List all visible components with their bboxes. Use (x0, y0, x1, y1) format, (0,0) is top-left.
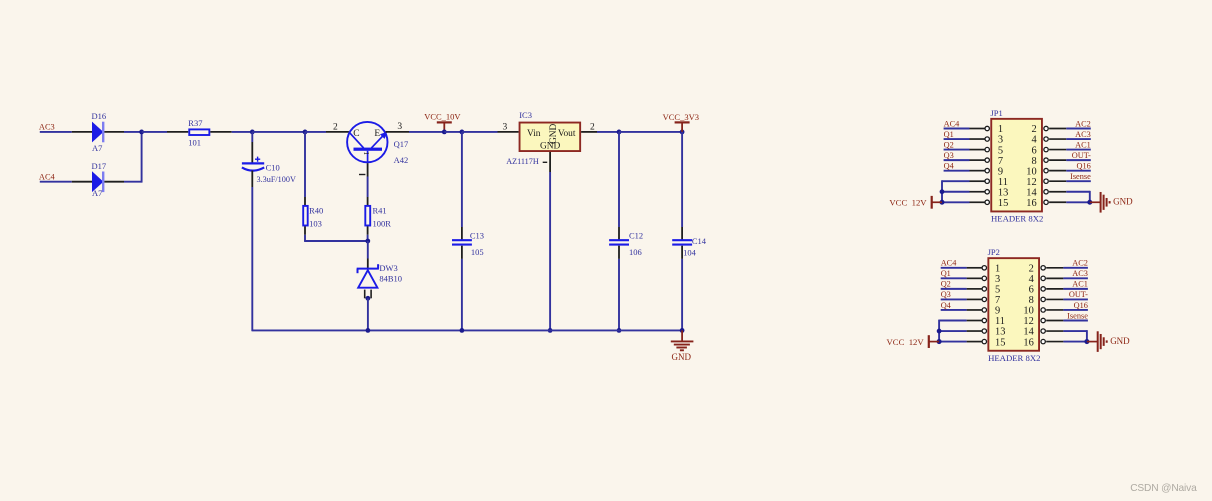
JP2 pin 3 stub (967, 277, 982, 279)
svg-text:AC2: AC2 (1075, 119, 1091, 128)
svg-text:8: 8 (1031, 156, 1036, 167)
wire JP2 pin 14 to gnd bus (1063, 330, 1087, 332)
wire node to DW3 cathode (367, 241, 369, 259)
wire JP1 pin 16 to gnd bus (1066, 201, 1090, 203)
svg-text:Isense: Isense (1067, 311, 1088, 320)
wire net OUT- at JP1 (1066, 159, 1091, 161)
wire R37 to C10 node (232, 131, 253, 133)
svg-text:6: 6 (1031, 145, 1036, 156)
svg-text:Q16: Q16 (1074, 301, 1088, 310)
wire node down to C12 (618, 132, 620, 227)
wire VCC_3V3 node down to C14 (681, 132, 683, 227)
svg-text:Q17: Q17 (394, 139, 409, 149)
svg-text:AC4: AC4 (944, 119, 961, 128)
JP2 pin 4 circle (1041, 276, 1045, 280)
svg-text:Q4: Q4 (944, 161, 955, 170)
wire C10 to bottom rail (251, 187, 253, 331)
svg-text:Q1: Q1 (944, 130, 954, 139)
ground symbol at JP2 (1087, 341, 1098, 343)
svg-text:3: 3 (995, 274, 1000, 285)
svg-text:Q3: Q3 (944, 151, 954, 160)
svg-text:3: 3 (998, 135, 1003, 146)
JP1 pin 4 stub (1049, 138, 1066, 140)
svg-text:2: 2 (1031, 124, 1036, 135)
wire IC3 GND to bottom rail (549, 172, 551, 331)
svg-text:AC3: AC3 (1072, 269, 1088, 278)
wire net AC2 at JP1 (1066, 128, 1091, 130)
svg-text:AC4: AC4 (39, 172, 56, 181)
junction dot VCC_10V node (442, 130, 447, 135)
svg-text:2: 2 (333, 122, 338, 132)
svg-text:15: 15 (995, 337, 1005, 348)
wire JP2 pin 15 to bus (939, 341, 967, 343)
JP2 pin 3 circle (982, 276, 986, 280)
ground symbol at JP1 (1090, 201, 1101, 203)
svg-text:AC2: AC2 (1072, 259, 1088, 268)
wire net AC4 at JP2 (941, 267, 967, 269)
wire R40 to R41 bottom node (304, 235, 306, 241)
svg-text:JP1: JP1 (991, 108, 1003, 118)
svg-text:11: 11 (998, 177, 1008, 188)
capacitor C10 (251, 142, 253, 163)
svg-text:C: C (353, 129, 359, 139)
JP2 pin 12 circle (1041, 318, 1045, 322)
junction dot R40/R41/DW3 node (365, 239, 370, 244)
svg-text:1: 1 (998, 124, 1003, 135)
power symbol VCC 12V at JP1 (932, 201, 942, 203)
JP1 pin 6 stub (1049, 149, 1066, 151)
svg-text:14: 14 (1026, 187, 1037, 198)
wire R40 node to Q17 collector (305, 131, 326, 133)
svg-text:13: 13 (995, 327, 1005, 338)
JP1 pin 2 circle (1044, 126, 1048, 130)
svg-text:C10: C10 (266, 163, 280, 173)
JP2 pin 10 stub (1046, 309, 1063, 311)
wire Q17 emitter to VCC_10V node (409, 131, 444, 133)
svg-text:15: 15 (998, 198, 1008, 209)
svg-text:C14: C14 (692, 236, 707, 246)
JP2 pin 6 stub (1046, 288, 1063, 290)
svg-text:GND: GND (1110, 336, 1130, 346)
JP1 pin 8 circle (1044, 158, 1048, 162)
JP1 pin 5 circle (985, 147, 989, 151)
diode D16 (72, 131, 92, 133)
wire JP1 pin 13 to bus (942, 191, 970, 193)
JP1 pin 8 stub (1049, 159, 1066, 161)
svg-text:3: 3 (503, 123, 508, 133)
svg-text:VCC_3V3: VCC_3V3 (663, 112, 699, 122)
JP2 pin 13 stub (967, 330, 982, 332)
JP2 pin 7 stub (967, 298, 982, 300)
JP2 pin 9 circle (982, 308, 986, 312)
svg-text:Q16: Q16 (1077, 161, 1091, 170)
svg-text:12: 12 (1026, 177, 1036, 188)
JP1 VCC bus vertical (941, 180, 943, 202)
svg-text:HEADER 8X2: HEADER 8X2 (991, 214, 1043, 224)
JP2 pin 16 stub (1046, 341, 1063, 343)
JP1 pin 3 circle (985, 137, 989, 141)
svg-text:8: 8 (1029, 295, 1034, 306)
zener diode DW3 (367, 259, 369, 269)
JP2 pin 2 circle (1041, 266, 1045, 270)
svg-text:13: 13 (998, 187, 1008, 198)
junction dot AC3/D16 node (139, 130, 144, 135)
svg-text:14: 14 (1023, 327, 1034, 338)
JP2 pin 6 circle (1041, 287, 1045, 291)
JP1 pin 14 circle (1044, 190, 1048, 194)
wire VCC_10V node to C13 node (444, 131, 462, 133)
wire R41 to node (367, 235, 369, 241)
JP1 pin 7 stub (970, 159, 985, 161)
svg-text:VCC_10V: VCC_10V (424, 111, 461, 121)
JP1 pin 7 circle (985, 158, 989, 162)
svg-text:4: 4 (1031, 135, 1037, 146)
JP2 pin 12 stub (1046, 320, 1063, 322)
svg-text:AZ1117H: AZ1117H (506, 157, 539, 166)
svg-text:C13: C13 (470, 231, 484, 241)
junction dot JP2 pin 13 (937, 329, 942, 334)
wire JP2 pin 13 to bus (939, 330, 967, 332)
JP2 pin 2 stub (1046, 267, 1063, 269)
wire C13 to bottom rail (461, 259, 463, 331)
svg-text:D16: D16 (92, 111, 107, 121)
wire node down to C10 (251, 132, 253, 142)
svg-text:IC3: IC3 (519, 110, 532, 120)
JP2 pin 10 circle (1041, 308, 1045, 312)
svg-text:VCC 12V: VCC 12V (889, 198, 927, 208)
wire net Q3 at JP1 (944, 159, 970, 161)
capacitor C13 (461, 227, 463, 240)
svg-text:AC4: AC4 (941, 259, 958, 268)
JP2 pin 8 stub (1046, 298, 1063, 300)
svg-text:Q4: Q4 (941, 301, 952, 310)
svg-text:103: 103 (309, 218, 322, 228)
svg-text:5: 5 (998, 145, 1003, 156)
JP2 pin 15 circle (982, 339, 986, 343)
svg-text:Isense: Isense (1070, 172, 1091, 181)
Q17 emitter pin wire (386, 131, 409, 133)
svg-text:Q2: Q2 (941, 280, 951, 289)
svg-text:1: 1 (362, 151, 371, 155)
JP1 pin 9 circle (985, 168, 989, 172)
svg-text:9: 9 (998, 166, 1003, 177)
svg-text:10: 10 (1026, 166, 1036, 177)
JP1 pin 10 circle (1044, 168, 1048, 172)
JP2 pin 5 stub (967, 288, 982, 290)
capacitor C14 (681, 227, 683, 240)
svg-text:11: 11 (995, 316, 1005, 327)
JP1 pin 9 stub (970, 170, 985, 172)
svg-text:84B10: 84B10 (379, 274, 402, 284)
wire net Isense at JP2 (1063, 320, 1088, 322)
JP1 pin 13 stub (970, 191, 985, 193)
regulator IC3 (498, 131, 519, 133)
svg-text:AC1: AC1 (1072, 280, 1088, 289)
JP1 pin 1 circle (985, 126, 989, 130)
svg-text:6: 6 (1029, 285, 1034, 296)
wire IC3 Vout to C12 node (597, 131, 619, 133)
JP2 pin 1 circle (982, 266, 986, 270)
JP2 pin 14 stub (1046, 330, 1063, 332)
resistor R40 (304, 197, 306, 205)
svg-text:3.3uF/100V: 3.3uF/100V (257, 175, 296, 184)
wire net AC1 at JP2 (1063, 288, 1088, 290)
svg-text:AC1: AC1 (1075, 140, 1091, 149)
svg-text:Vout: Vout (558, 129, 576, 139)
wire AC4 to D17 anode (40, 181, 72, 183)
wire C12 node to VCC_3V3 corner (619, 131, 682, 133)
svg-text:VCC 12V: VCC 12V (887, 337, 925, 347)
header JP1 body (991, 119, 1042, 212)
JP2 pin 4 stub (1046, 277, 1063, 279)
junction dot GND corner (680, 328, 685, 333)
JP2 pin 5 circle (982, 287, 986, 291)
JP2 pin 15 stub (967, 341, 982, 343)
ground symbol GND (681, 330, 683, 341)
svg-text:7: 7 (998, 156, 1003, 167)
svg-text:5: 5 (995, 285, 1000, 296)
svg-text:R37: R37 (188, 118, 202, 128)
JP1 pin 2 stub (1049, 128, 1066, 130)
svg-text:104: 104 (683, 248, 697, 258)
svg-text:4: 4 (1029, 274, 1035, 285)
resistor R41 (367, 197, 369, 205)
svg-text:GND: GND (540, 142, 561, 152)
wire JP1 pin 14 to gnd bus (1066, 191, 1090, 193)
wire DW3 anode to bottom rail (367, 298, 369, 331)
JP2 pin 13 circle (982, 329, 986, 333)
junction dot JP1 pin 16 (1087, 200, 1092, 205)
svg-text:R40: R40 (309, 205, 323, 215)
junction dot C12 node (617, 130, 622, 135)
wire C12 to bottom rail (618, 259, 620, 331)
JP1 pin 16 stub (1049, 201, 1066, 203)
wire JP1 pin 15 to bus (942, 201, 970, 203)
svg-text:3: 3 (397, 122, 402, 132)
svg-text:HEADER 8X2: HEADER 8X2 (988, 353, 1040, 363)
wire net Q16 at JP2 (1063, 309, 1088, 311)
JP1 pin 14 stub (1049, 191, 1066, 193)
JP1 pin 11 circle (985, 179, 989, 183)
JP1 pin 6 circle (1044, 147, 1048, 151)
wire net AC4 at JP1 (944, 128, 970, 130)
power symbol VCC_3V3 (675, 121, 690, 123)
JP1 pin 4 circle (1044, 137, 1048, 141)
junction dot JP2 pin 15 (937, 339, 942, 344)
svg-text:CSDN @Naiva: CSDN @Naiva (1130, 483, 1197, 494)
svg-text:2: 2 (590, 122, 595, 132)
svg-text:106: 106 (629, 247, 642, 257)
wire C10 node to R40 node (252, 131, 305, 133)
svg-text:Q2: Q2 (944, 140, 954, 149)
junction dot C12 at rail (617, 328, 622, 333)
wire node down to C13 (461, 132, 463, 227)
wire net AC3 at JP1 (1066, 138, 1091, 140)
wire JP2 pin 16 to gnd bus (1063, 341, 1087, 343)
wire net AC3 at JP2 (1063, 277, 1088, 279)
junction dot C13 node (460, 130, 465, 135)
svg-text:16: 16 (1023, 337, 1033, 348)
wire net Q3 at JP2 (941, 298, 967, 300)
svg-text:A7: A7 (92, 143, 102, 153)
power symbol VCC 12V at JP2 (929, 341, 939, 343)
wire net Q4 at JP1 (944, 170, 970, 172)
svg-text:Vin: Vin (527, 129, 541, 139)
JP1 pin 12 circle (1044, 179, 1048, 183)
svg-text:A7: A7 (92, 188, 102, 198)
junction dot JP1 pin 13 (940, 189, 945, 194)
power symbol VCC_10V (437, 121, 452, 123)
wire AC3 to D16 anode (40, 131, 72, 133)
svg-text:A42: A42 (394, 155, 409, 165)
JP2 pin 11 stub (967, 320, 982, 322)
svg-text:C12: C12 (629, 231, 643, 241)
svg-text:OUT-: OUT- (1072, 151, 1091, 160)
svg-text:D17: D17 (92, 161, 107, 171)
JP2 pin 1 stub (967, 267, 982, 269)
wire D17 cathode to corner (124, 181, 142, 183)
wire D16 cathode to node (124, 131, 142, 133)
svg-text:OUT-: OUT- (1069, 290, 1088, 299)
svg-text:GND: GND (672, 352, 692, 362)
JP1 pin 5 stub (970, 149, 985, 151)
svg-text:E: E (374, 129, 380, 139)
JP1 pin 12 stub (1049, 180, 1066, 182)
wire net Q4 at JP2 (941, 309, 967, 311)
JP1 GND bus vertical (1089, 191, 1091, 202)
JP2 VCC bus vertical (938, 320, 940, 342)
wire net OUT- at JP2 (1063, 298, 1088, 300)
JP2 pin 14 circle (1041, 329, 1045, 333)
junction dot JP1 pin 15 (940, 200, 945, 205)
wire node to R37 (142, 131, 167, 133)
JP2 pin 11 circle (982, 318, 986, 322)
svg-text:2: 2 (1029, 264, 1034, 275)
junction dot C10 node (250, 130, 255, 135)
JP1 pin 10 stub (1049, 170, 1066, 172)
JP1 pin 3 stub (970, 138, 985, 140)
wire bottom ground rail (252, 329, 682, 331)
junction dot DW3 at rail (366, 328, 371, 333)
pin number 1 of IC3 dash (543, 161, 548, 163)
svg-text:GND: GND (1113, 196, 1133, 206)
junction dot C13 at rail (460, 328, 465, 333)
wire net Q16 at JP1 (1066, 170, 1091, 172)
wire net Q1 at JP2 (941, 277, 967, 279)
JP2 pin 9 stub (967, 309, 982, 311)
svg-text:JP2: JP2 (988, 247, 1000, 257)
header JP2 body (988, 258, 1039, 351)
svg-text:Q1: Q1 (941, 269, 951, 278)
wire node down to R40 (304, 132, 306, 197)
svg-text:DW3: DW3 (379, 263, 397, 273)
svg-text:9: 9 (995, 306, 1000, 317)
JP2 GND bus vertical (1086, 330, 1088, 341)
wire net Q1 at JP1 (944, 138, 970, 140)
JP1 pin 15 circle (985, 200, 989, 204)
junction dot DW3 anode (366, 296, 371, 301)
svg-text:7: 7 (995, 295, 1000, 306)
wire base to R41 (367, 177, 369, 198)
JP1 pin 16 circle (1044, 200, 1048, 204)
junction dot JP2 pin 16 (1084, 339, 1089, 344)
JP2 pin 16 circle (1041, 339, 1045, 343)
base pin number 1 dash (359, 174, 365, 176)
wire C13 node to IC3 Vin (462, 131, 498, 133)
svg-text:R41: R41 (373, 205, 387, 215)
wire net Isense at JP1 (1066, 180, 1091, 182)
wire vertical AC4 node to AC3 node (141, 131, 143, 183)
wire JP2 pin 11 to bus (939, 320, 967, 322)
resistor R37 (167, 131, 188, 133)
junction dot VCC_3V3 node (680, 130, 685, 135)
svg-text:10: 10 (1023, 306, 1033, 317)
JP1 pin 13 circle (985, 190, 989, 194)
svg-text:100R: 100R (373, 218, 392, 228)
JP2 pin 8 circle (1041, 297, 1045, 301)
capacitor C12 (618, 227, 620, 240)
JP2 pin 7 circle (982, 297, 986, 301)
Q17 base pin stub (367, 163, 369, 176)
svg-text:105: 105 (471, 247, 484, 257)
JP1 pin 11 stub (970, 180, 985, 182)
diode D17 (72, 181, 92, 183)
JP1 pin 15 stub (970, 201, 985, 203)
svg-text:12: 12 (1023, 316, 1033, 327)
svg-text:1: 1 (995, 264, 1000, 275)
wire C14 to bottom rail (681, 259, 683, 331)
wire net AC2 at JP2 (1063, 267, 1088, 269)
wire net Q2 at JP2 (941, 288, 967, 290)
JP1 pin 1 stub (970, 128, 985, 130)
svg-text:101: 101 (188, 138, 201, 148)
wire net Q2 at JP1 (944, 149, 970, 151)
wire JP1 pin 11 to bus (942, 180, 970, 182)
transistor Q17 (326, 131, 349, 133)
wire net AC1 at JP1 (1066, 149, 1091, 151)
svg-text:Q3: Q3 (941, 290, 951, 299)
svg-text:AC3: AC3 (1075, 130, 1091, 139)
svg-text:AC3: AC3 (39, 123, 55, 132)
junction dot R40 node (303, 130, 308, 135)
svg-text:16: 16 (1026, 198, 1036, 209)
junction dot IC3 GND at rail (548, 328, 553, 333)
